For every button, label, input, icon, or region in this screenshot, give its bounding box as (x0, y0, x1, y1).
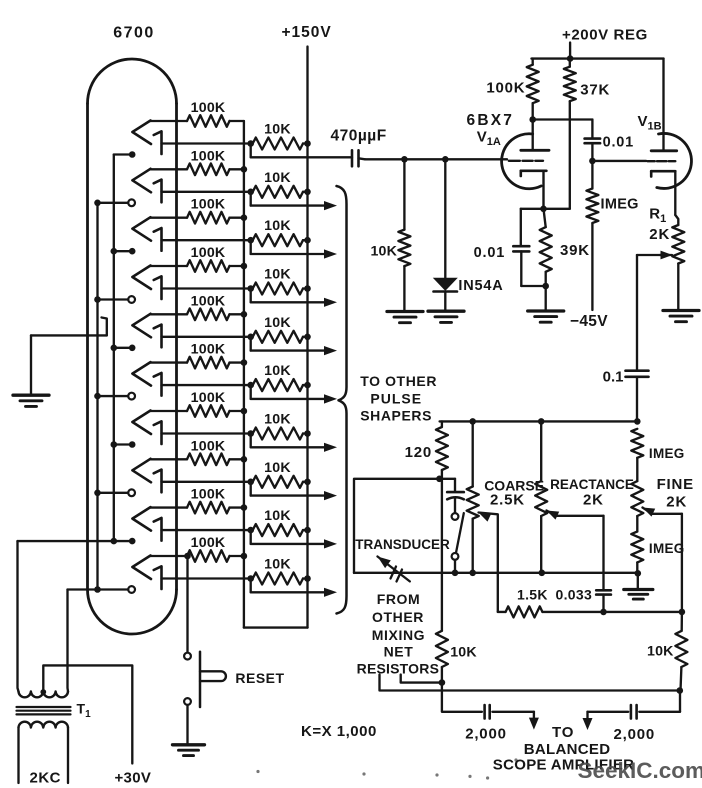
svg-text:100K: 100K (486, 80, 525, 97)
svg-text:10K: 10K (264, 460, 291, 476)
svg-text:TRANSDUCER: TRANSDUCER (355, 537, 450, 552)
svg-text:10K: 10K (264, 122, 291, 138)
svg-text:MIXING: MIXING (372, 627, 425, 643)
svg-text:10K: 10K (264, 363, 291, 379)
svg-text:0.01: 0.01 (603, 135, 634, 151)
svg-text:0.033: 0.033 (556, 587, 593, 603)
svg-text:10K: 10K (370, 244, 397, 260)
svg-text:100K: 100K (191, 438, 226, 454)
svg-text:REACTANCE: REACTANCE (550, 477, 634, 492)
svg-text:100K: 100K (191, 197, 226, 213)
svg-text:10K: 10K (450, 644, 477, 660)
svg-text:IMEG: IMEG (649, 446, 685, 461)
svg-text:IMEG: IMEG (649, 541, 685, 556)
svg-text:470µµF: 470µµF (331, 128, 387, 145)
svg-text:100K: 100K (191, 148, 226, 164)
svg-text:10K: 10K (264, 267, 291, 283)
svg-text:6BX7: 6BX7 (467, 112, 515, 129)
svg-text:RESISTORS: RESISTORS (357, 661, 439, 677)
svg-text:10K: 10K (647, 644, 674, 660)
svg-text:SHAPERS: SHAPERS (360, 408, 432, 424)
svg-text:PULSE: PULSE (370, 391, 422, 407)
svg-text:10K: 10K (264, 557, 291, 573)
svg-text:39K: 39K (560, 242, 590, 259)
svg-text:10K: 10K (264, 218, 291, 234)
svg-text:10K: 10K (264, 170, 291, 186)
svg-text:OTHER: OTHER (372, 609, 424, 625)
svg-text:100K: 100K (191, 390, 226, 406)
svg-text:1.5K: 1.5K (517, 586, 548, 602)
svg-text:NET: NET (384, 644, 414, 660)
svg-text:+200V REG: +200V REG (562, 27, 648, 44)
svg-text:FINE: FINE (657, 476, 694, 493)
svg-text:2K: 2K (649, 226, 670, 243)
svg-text:−45V: −45V (570, 313, 608, 330)
svg-text:100K: 100K (191, 342, 226, 358)
svg-text:K=X 1,000: K=X 1,000 (301, 723, 377, 740)
svg-text:+30V: +30V (115, 770, 152, 787)
svg-text:IMEG: IMEG (601, 197, 639, 213)
svg-text:120: 120 (405, 444, 432, 461)
svg-text:2.5K: 2.5K (490, 491, 525, 508)
svg-text:37K: 37K (580, 82, 610, 99)
svg-text:6700: 6700 (113, 25, 155, 42)
svg-text:2,000: 2,000 (465, 726, 507, 743)
svg-text:2,000: 2,000 (614, 726, 656, 743)
svg-text:2KC: 2KC (30, 770, 62, 787)
svg-text:10K: 10K (264, 412, 291, 428)
svg-text:10K: 10K (264, 508, 291, 524)
svg-text:100K: 100K (191, 245, 226, 261)
svg-text:100K: 100K (191, 100, 226, 116)
svg-text:2K: 2K (583, 491, 604, 508)
svg-text:BALANCED: BALANCED (524, 741, 611, 758)
svg-text:RESET: RESET (235, 670, 284, 686)
svg-text:SeekIC.com: SeekIC.com (578, 758, 702, 783)
svg-text:10K: 10K (264, 315, 291, 331)
svg-text:+150V: +150V (282, 24, 332, 41)
svg-text:IN54A: IN54A (458, 278, 503, 294)
svg-text:0.1: 0.1 (603, 369, 624, 386)
svg-text:100K: 100K (191, 487, 226, 503)
svg-text:2K: 2K (666, 493, 687, 510)
svg-text:FROM: FROM (377, 591, 421, 607)
svg-text:100K: 100K (191, 535, 226, 551)
svg-text:0.01: 0.01 (474, 245, 505, 261)
svg-text:100K: 100K (191, 293, 226, 309)
svg-text:TO OTHER: TO OTHER (360, 373, 437, 389)
svg-text:TO: TO (552, 724, 574, 741)
